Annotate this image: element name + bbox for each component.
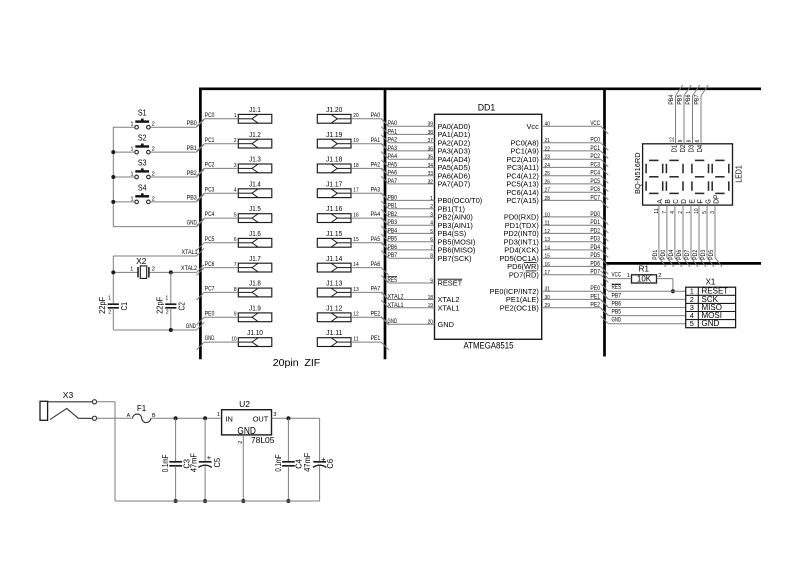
svg-text:47mF: 47mF [190, 453, 199, 472]
svg-text:R1: R1 [639, 264, 650, 273]
svg-text:32: 32 [428, 179, 433, 185]
svg-text:+: + [207, 453, 211, 462]
LED1 pin 4 segment C bottom wire, net PD4 [668, 199, 682, 267]
DD1 pin 5 PB4(SS) left stub, net PB4 [381, 226, 466, 238]
svg-text:XTAL2: XTAL2 [388, 294, 404, 301]
svg-text:1: 1 [234, 113, 237, 119]
bus divider top [199, 87, 761, 90]
svg-text:PA1: PA1 [388, 128, 398, 135]
svg-text:PE0: PE0 [205, 310, 215, 317]
wire fuse to U2 IN [151, 417, 222, 419]
DD1 pin 32 PA7(AD7) left stub, net PA7 [381, 176, 470, 188]
svg-text:6: 6 [695, 140, 701, 143]
svg-text:36: 36 [428, 146, 433, 152]
svg-text:PB3: PB3 [388, 219, 398, 226]
svg-text:IN: IN [225, 414, 232, 423]
DD1 pin 22 PC1(A9) right stub, net PC1 [510, 145, 608, 159]
svg-text:J1.6: J1.6 [249, 229, 261, 238]
svg-text:J1.17: J1.17 [326, 179, 342, 188]
LED1 pin 5 segment G bottom wire, net PD3 [700, 199, 714, 267]
svg-text:21: 21 [545, 138, 550, 144]
wire PB6 to X1 [601, 300, 686, 308]
svg-text:47mF: 47mF [303, 453, 312, 472]
wire J1.19 pin to bus, net PA1 [351, 137, 389, 152]
connector X1 table [686, 277, 736, 328]
wire J1.20 pin to bus, net PA0 [351, 112, 389, 127]
connector J1.8 [238, 279, 271, 297]
svg-text:PD2: PD2 [692, 249, 699, 259]
DD1 pin 38 PA1(AD1) left stub, net PA1 [381, 127, 470, 139]
svg-text:PB1: PB1 [187, 145, 198, 152]
svg-text:5: 5 [430, 229, 433, 235]
svg-text:J1.8: J1.8 [249, 279, 261, 288]
svg-text:11: 11 [545, 221, 550, 227]
connector J1.3 [238, 155, 271, 173]
svg-text:D3: D3 [689, 145, 696, 153]
svg-text:J1.12: J1.12 [326, 303, 342, 312]
wire S4 pin2 to bus, net PB3 [150, 194, 204, 202]
svg-text:PC0: PC0 [590, 137, 600, 144]
wire U2 OUT rail [272, 417, 320, 419]
connector J1.4 [238, 179, 271, 197]
DD1 pin 27 PC6(A14) right stub, net PC6 [506, 186, 608, 200]
crystal X2 [130, 256, 155, 278]
svg-text:PB6: PB6 [612, 300, 622, 307]
svg-text:10K: 10K [637, 274, 652, 283]
svg-text:A: A [127, 413, 131, 419]
svg-text:DD1: DD1 [478, 103, 496, 113]
svg-text:RES: RES [612, 284, 622, 291]
svg-text:PD4: PD4 [590, 244, 600, 251]
svg-text:1: 1 [130, 266, 133, 272]
svg-text:PB7(SCK): PB7(SCK) [438, 254, 472, 263]
svg-text:PC1: PC1 [205, 137, 215, 144]
svg-text:26: 26 [545, 179, 550, 185]
svg-text:2: 2 [152, 266, 155, 272]
svg-text:XTAL1: XTAL1 [438, 303, 460, 312]
svg-text:RESET: RESET [438, 279, 463, 288]
DD1 pin 20 GND left stub, net GND [381, 317, 454, 329]
svg-text:U2: U2 [239, 399, 250, 409]
svg-text:PC2: PC2 [205, 162, 215, 169]
svg-text:OUT: OUT [253, 414, 269, 423]
svg-text:24: 24 [545, 163, 551, 169]
DD1 pin 25 PC4(A12) right stub, net PC4 [506, 170, 608, 184]
svg-text:PD3: PD3 [700, 249, 707, 259]
connector J1.19 [317, 130, 351, 148]
svg-text:PE2: PE2 [590, 302, 600, 309]
DD1 pin 36 PA3(AD3) left stub, net PA3 [381, 143, 470, 155]
svg-text:6: 6 [430, 237, 433, 243]
LED1 digit 4 segments [712, 160, 729, 193]
svg-text:1: 1 [430, 196, 433, 202]
junction dot XTAL2 right [169, 270, 173, 274]
wire S3 pin1 to left rail [113, 176, 134, 178]
wire GND from rail to bus [113, 219, 204, 227]
svg-text:17: 17 [545, 270, 550, 276]
LED1 pin 2 segment D bottom wire, net PD6 [676, 199, 690, 267]
svg-text:E: E [689, 199, 696, 204]
svg-text:40: 40 [545, 122, 550, 128]
svg-text:PD7: PD7 [590, 269, 600, 276]
svg-text:PB7: PB7 [388, 252, 398, 259]
svg-text:XTAL1: XTAL1 [182, 249, 198, 256]
svg-text:D: D [681, 199, 688, 204]
wire VCC to R1 [601, 271, 632, 279]
svg-text:J1.7: J1.7 [249, 254, 261, 263]
svg-text:J1.15: J1.15 [326, 229, 342, 238]
svg-text:5: 5 [690, 319, 694, 328]
svg-text:GND: GND [187, 219, 197, 226]
svg-text:7: 7 [234, 262, 237, 268]
svg-text:PB5: PB5 [388, 236, 398, 243]
svg-text:J1.20: J1.20 [326, 105, 342, 114]
DD1 pin 1 PB0(OC0/T0) left stub, net PB0 [381, 193, 482, 205]
svg-text:PC3: PC3 [205, 186, 215, 193]
junction dot RESET node [671, 289, 675, 293]
svg-text:PB7: PB7 [612, 292, 622, 299]
svg-text:J1.13: J1.13 [326, 279, 342, 288]
svg-text:GND: GND [438, 320, 454, 329]
svg-text:25: 25 [545, 171, 550, 177]
svg-text:PC7(A15): PC7(A15) [506, 196, 538, 205]
svg-text:9: 9 [430, 278, 433, 284]
junction dot C5 top [203, 416, 207, 420]
svg-text:C2: C2 [177, 302, 187, 311]
wire J1.16 pin to bus, net PA4 [351, 211, 389, 226]
svg-text:PA5: PA5 [388, 161, 398, 168]
pushbutton S4 [130, 183, 154, 203]
svg-text:PC7: PC7 [590, 194, 600, 201]
svg-text:19: 19 [428, 303, 433, 309]
svg-text:37: 37 [428, 138, 433, 144]
svg-text:35: 35 [428, 155, 433, 161]
svg-text:10: 10 [231, 336, 236, 342]
wire J1.15 pin to bus, net PA5 [351, 236, 389, 251]
wire S1 pin1 to left rail [113, 126, 134, 128]
junction dot C5 bottom [203, 499, 207, 503]
DD1 pin 18 XTAL2 left stub, net XTAL2 [381, 292, 459, 304]
svg-text:PE0: PE0 [590, 285, 600, 292]
svg-text:ATMEGA8515: ATMEGA8515 [464, 340, 514, 350]
connector J1.13 [317, 279, 351, 297]
svg-text:C: C [673, 199, 680, 204]
wire GND crystal section [113, 322, 204, 330]
pushbutton S2 [130, 134, 154, 154]
svg-text:PB6: PB6 [388, 244, 398, 251]
svg-text:8: 8 [234, 287, 237, 293]
svg-text:PB6: PB6 [685, 94, 692, 104]
svg-text:15: 15 [353, 237, 358, 243]
LED1 pin 1 segment E bottom wire, net PD7 [684, 199, 698, 267]
svg-text:1: 1 [686, 211, 692, 214]
svg-text:0.1mF: 0.1mF [161, 455, 170, 473]
wire J1.6 pin to bus, net PC5 [197, 236, 239, 251]
svg-text:PC1: PC1 [590, 145, 600, 152]
svg-text:PD6: PD6 [590, 260, 600, 267]
connector J1.5 [238, 204, 271, 222]
svg-text:33: 33 [428, 171, 433, 177]
svg-text:PA4: PA4 [388, 153, 398, 160]
wire C1 bottom [112, 308, 114, 330]
svg-text:PA3: PA3 [388, 145, 398, 152]
connector J1.17 [317, 179, 351, 197]
svg-text:2: 2 [678, 211, 684, 214]
connector J1.1 [238, 105, 271, 123]
wire X3 bottom pin to fuse [97, 417, 133, 419]
DD1 pin 34 PA5(AD5) left stub, net PA5 [381, 160, 470, 172]
LED1 digit 2 segments [666, 160, 683, 193]
svg-text:VCC: VCC [612, 272, 622, 279]
svg-text:PA4: PA4 [371, 211, 381, 218]
DD1 pin 21 PC0(A8) right stub, net PC0 [510, 137, 608, 151]
svg-text:23: 23 [545, 155, 550, 161]
LED1 display BQ-N516RD body [633, 144, 744, 205]
svg-text:PB5: PB5 [676, 94, 683, 104]
connector J1.7 [238, 254, 271, 272]
svg-text:GND: GND [388, 318, 398, 325]
svg-text:PD7(RD): PD7(RD) [509, 270, 539, 279]
connector J1.20 [317, 105, 351, 123]
wire R1 pin2 to RESET node [657, 278, 673, 280]
connector J1.2 [238, 130, 271, 148]
svg-text:PB5: PB5 [612, 309, 622, 316]
DD1 pin 15 PD5(OC1A) right stub, net PD5 [499, 252, 608, 266]
svg-text:PC6: PC6 [205, 261, 215, 268]
DD1 pin 40 Vcc right stub, net VCC [526, 120, 608, 134]
svg-text:PA2: PA2 [371, 162, 381, 169]
svg-text:DP: DP [713, 194, 720, 204]
svg-text:GND: GND [612, 317, 622, 324]
LED1 pin 8 D3 top wire, net PB6 [685, 85, 700, 152]
svg-text:PD6: PD6 [676, 249, 683, 259]
wire J1.5 pin to bus, net PC4 [197, 211, 239, 226]
wire J1.18 pin to bus, net PA2 [351, 162, 389, 177]
svg-text:PC4: PC4 [590, 170, 600, 177]
svg-text:PA3: PA3 [371, 186, 381, 193]
DD1 pin 7 PB6(MISO) left stub, net PB6 [381, 242, 475, 254]
svg-text:J1.1: J1.1 [249, 105, 261, 114]
DD1 pin 2 PB1(T1) left stub, net PB1 [381, 201, 465, 213]
DD1 pin 24 PC3(A11) right stub, net PC3 [507, 161, 608, 175]
wire RES to X1 [601, 284, 686, 292]
DD1 pin 9 RESET left stub, net RES [381, 275, 463, 287]
DD1 pin 30 PE1(ALE) right stub, net PE1 [506, 293, 608, 307]
svg-text:PC6: PC6 [590, 186, 600, 193]
svg-text:5: 5 [234, 213, 237, 219]
svg-text:PA7: PA7 [388, 178, 398, 185]
connector J1.10 [238, 328, 271, 346]
svg-text:PA0: PA0 [371, 112, 381, 119]
svg-text:18: 18 [428, 295, 433, 301]
svg-text:PB0: PB0 [187, 120, 198, 127]
pushbutton S1 [130, 109, 154, 129]
DD1 pin 26 PC5(A13) right stub, net PC5 [506, 178, 608, 192]
DD1 pin 10 PD0(RXD) right stub, net PD0 [504, 211, 608, 225]
svg-text:2: 2 [166, 310, 169, 316]
svg-text:20: 20 [428, 320, 433, 326]
svg-text:78L05: 78L05 [251, 435, 275, 445]
svg-text:13: 13 [353, 287, 358, 293]
resistor R1 10K [627, 264, 662, 283]
svg-text:11: 11 [654, 208, 660, 213]
svg-text:D2: D2 [680, 145, 687, 153]
svg-text:J1.16: J1.16 [326, 204, 342, 213]
junction dot C2 GND [169, 328, 173, 332]
svg-text:39: 39 [428, 122, 433, 128]
LED1 pin 7 segment B bottom wire, net PD0 [660, 199, 674, 267]
svg-text:38: 38 [428, 130, 433, 136]
capacitor C3 0.1mF [161, 418, 192, 501]
svg-text:PA5: PA5 [371, 236, 381, 243]
DD1 pin 19 XTAL1 left stub, net XTAL1 [381, 300, 459, 312]
svg-text:7: 7 [662, 211, 668, 214]
svg-text:1: 1 [165, 296, 168, 302]
svg-text:G: G [705, 199, 712, 204]
svg-text:J1.4: J1.4 [249, 179, 261, 188]
wire J1.7 pin to bus, net PC6 [197, 261, 239, 276]
svg-text:PB3: PB3 [187, 195, 198, 202]
svg-text:PD1: PD1 [652, 249, 659, 259]
svg-text:10: 10 [694, 208, 700, 213]
svg-text:PC0: PC0 [205, 112, 215, 119]
junction dot rail S3 [111, 175, 115, 179]
svg-text:PA7: PA7 [371, 286, 381, 293]
svg-text:PB2: PB2 [388, 211, 398, 218]
DD1 pin 31 PE0(ICP/INT2) right stub, net PE0 [490, 285, 609, 299]
svg-text:D1: D1 [672, 145, 679, 153]
svg-text:31: 31 [545, 287, 550, 293]
DD1 pin 14 PD4(XCK) right stub, net PD4 [504, 244, 608, 258]
connector J1.18 [317, 155, 351, 173]
svg-text:22pF: 22pF [156, 297, 165, 314]
IC DD1 body [435, 103, 542, 351]
svg-text:PD1: PD1 [590, 219, 600, 226]
wire J1.4 pin to bus, net PC3 [197, 186, 239, 201]
wire C6 branch from OUT [319, 418, 321, 462]
svg-text:J1.14: J1.14 [326, 254, 342, 263]
LED1 pin 12 D1 top wire, net PB4 [668, 85, 683, 152]
LED1 pin 6 D4 top wire, net PB7 [693, 85, 708, 152]
wire J1.8 pin to bus, net PC7 [197, 286, 239, 301]
svg-text:1: 1 [217, 412, 220, 418]
connector J1.16 [317, 204, 351, 222]
svg-text:PD4: PD4 [668, 249, 675, 259]
svg-text:XTAL2: XTAL2 [181, 265, 197, 272]
svg-text:PB4: PB4 [388, 227, 398, 234]
svg-text:PC2: PC2 [590, 153, 600, 160]
svg-text:13: 13 [545, 237, 550, 243]
svg-text:PE2(OC1B): PE2(OC1B) [500, 303, 539, 312]
wire S2 pin1 to left rail [113, 151, 134, 153]
svg-text:XTAL1: XTAL1 [388, 302, 404, 309]
svg-text:PC3: PC3 [590, 161, 600, 168]
wire S3 pin2 to bus, net PB2 [150, 169, 204, 177]
svg-text:X3: X3 [63, 390, 74, 400]
svg-text:X1: X1 [706, 277, 716, 286]
svg-text:D4: D4 [697, 145, 704, 153]
wire J1.11 pin to bus, net PE1 [351, 335, 389, 350]
svg-text:PA6: PA6 [371, 261, 381, 268]
svg-text:PE2: PE2 [371, 310, 381, 317]
svg-text:J1.19: J1.19 [326, 130, 342, 139]
svg-text:C5: C5 [212, 458, 222, 468]
svg-text:17: 17 [353, 188, 358, 194]
svg-text:PA1: PA1 [371, 137, 381, 144]
bus divider horizontal (LED / X1 section) [603, 262, 761, 265]
svg-text:F: F [697, 199, 704, 204]
DD1 pin 37 PA2(AD2) left stub, net PA2 [381, 135, 470, 147]
svg-text:2: 2 [430, 204, 433, 210]
wire J1.17 pin to bus, net PA3 [351, 186, 389, 201]
bus divider middle (ZIF right / DD1 left) [384, 88, 387, 360]
junction dot C4 bottom [286, 499, 290, 503]
wire J1.2 pin to bus, net PC1 [197, 137, 239, 152]
svg-text:3: 3 [273, 412, 276, 418]
svg-text:PC7: PC7 [205, 286, 215, 293]
svg-text:B: B [665, 199, 672, 204]
wire U2 GND pin down [242, 435, 244, 501]
svg-text:16: 16 [353, 213, 358, 219]
wire C2 bottom [170, 308, 172, 330]
DD1 pin 6 PB5(MOSI) left stub, net PB5 [381, 234, 475, 246]
svg-text:PD2: PD2 [590, 227, 600, 234]
svg-text:PB0: PB0 [388, 194, 398, 201]
wire S1 pin2 to bus, net PB0 [150, 120, 204, 128]
svg-text:A: A [657, 199, 664, 204]
svg-text:12: 12 [669, 137, 675, 142]
svg-text:PD3: PD3 [590, 236, 600, 243]
svg-text:7: 7 [430, 245, 433, 251]
svg-text:10: 10 [545, 212, 550, 218]
svg-text:PB1: PB1 [388, 203, 398, 210]
capacitor C5 47mF polarized [190, 418, 222, 501]
svg-text:0.1mF: 0.1mF [274, 454, 283, 471]
svg-text:LED1: LED1 [735, 165, 744, 183]
svg-text:20pin ZIF: 20pin ZIF [273, 358, 321, 369]
svg-text:C1: C1 [119, 302, 129, 311]
wire J1.3 pin to bus, net PC2 [197, 162, 239, 177]
bus divider right (DD1 right / LED section) [603, 88, 606, 357]
bus divider left (ZIF left edge) [199, 88, 202, 360]
svg-text:29: 29 [545, 303, 550, 309]
pushbutton S3 [130, 159, 154, 179]
svg-text:S2: S2 [138, 134, 147, 143]
wire ground rail bottom [115, 500, 320, 502]
svg-text:F1: F1 [137, 404, 147, 413]
wire PB7 to X1 [601, 292, 686, 300]
svg-text:C6: C6 [325, 459, 335, 469]
junction dot C3 top [174, 416, 178, 420]
svg-text:GND: GND [205, 335, 215, 342]
junction dot C3 bottom [174, 499, 178, 503]
svg-text:S3: S3 [138, 159, 147, 168]
connector J1.9 [238, 303, 271, 321]
wire PB5 to X1 [601, 308, 686, 316]
svg-text:2: 2 [108, 310, 111, 316]
DD1 pin 39 PA0(AD0) left stub, net PA0 [381, 119, 470, 131]
wire J1.9 pin to bus, net PE0 [197, 310, 239, 325]
svg-text:3: 3 [430, 212, 433, 218]
LED1 pin 9 D2 top wire, net PB5 [676, 85, 691, 152]
svg-text:PE1: PE1 [590, 293, 600, 300]
svg-text:27: 27 [545, 188, 550, 194]
svg-text:GND: GND [702, 319, 720, 328]
wire J1.10 pin to bus, net GND [197, 335, 239, 350]
svg-text:PA2: PA2 [388, 137, 398, 144]
svg-text:X2: X2 [136, 256, 147, 266]
DD1 pin 17 PD7(RD) right stub, net PD7 [509, 269, 608, 283]
